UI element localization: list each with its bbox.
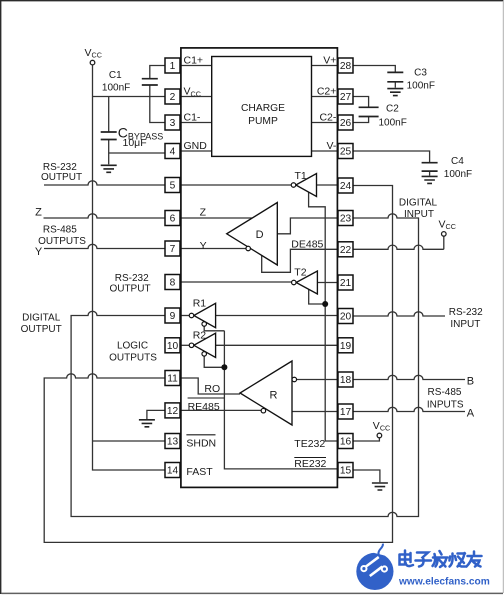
svg-text:RS-232: RS-232 [449, 307, 483, 318]
svg-text:OUTPUT: OUTPUT [41, 172, 82, 183]
svg-text:GND: GND [184, 140, 208, 152]
svg-text:OUTPUTS: OUTPUTS [38, 236, 86, 247]
svg-text:RS-485: RS-485 [428, 387, 462, 398]
svg-text:OUTPUTS: OUTPUTS [109, 352, 157, 363]
svg-text:C3: C3 [414, 68, 427, 79]
svg-text:27: 27 [340, 92, 352, 103]
svg-text:6: 6 [170, 214, 176, 225]
svg-text:21: 21 [340, 278, 352, 289]
svg-text:OUTPUT: OUTPUT [21, 324, 62, 335]
svg-text:26: 26 [340, 118, 352, 129]
svg-text:INPUTS: INPUTS [427, 400, 464, 411]
svg-text:DIGITAL: DIGITAL [22, 312, 61, 323]
svg-text:V+: V+ [323, 55, 336, 67]
svg-text:25: 25 [340, 147, 352, 158]
svg-text:Z: Z [200, 206, 207, 218]
svg-text:100nF: 100nF [407, 80, 435, 91]
svg-text:10: 10 [167, 341, 179, 352]
svg-text:LOGIC: LOGIC [117, 341, 148, 352]
svg-text:R2: R2 [193, 329, 207, 341]
svg-text:14: 14 [167, 466, 179, 477]
svg-text:PUMP: PUMP [248, 116, 278, 127]
svg-text:SHDN: SHDN [186, 437, 216, 449]
svg-text:CHARGE: CHARGE [241, 103, 285, 114]
svg-text:RE232: RE232 [294, 458, 326, 470]
svg-text:24: 24 [340, 181, 352, 192]
svg-text:18: 18 [340, 375, 352, 386]
svg-text:13: 13 [167, 437, 179, 448]
svg-text:Z: Z [35, 206, 42, 218]
svg-text:V-: V- [326, 140, 336, 152]
svg-text:2: 2 [170, 92, 176, 103]
svg-text:RE485: RE485 [188, 401, 220, 413]
svg-text:B: B [467, 376, 474, 388]
svg-text:100nF: 100nF [444, 169, 472, 180]
svg-text:100nF: 100nF [102, 83, 130, 94]
svg-text:A: A [467, 408, 475, 420]
svg-text:12: 12 [167, 406, 179, 417]
svg-text:R: R [270, 390, 278, 402]
svg-text:FAST: FAST [186, 466, 213, 478]
svg-text:7: 7 [170, 244, 176, 255]
svg-text:20: 20 [340, 312, 352, 323]
svg-text:1: 1 [170, 61, 176, 72]
svg-text:DIGITAL: DIGITAL [399, 198, 438, 209]
svg-text:11: 11 [167, 374, 178, 385]
svg-text:19: 19 [340, 341, 352, 352]
svg-text:22: 22 [340, 245, 352, 256]
svg-text:15: 15 [340, 466, 352, 477]
svg-text:Y: Y [35, 246, 43, 258]
svg-text:C2-: C2- [319, 112, 336, 124]
svg-text:D: D [256, 229, 264, 241]
svg-text:3: 3 [170, 118, 176, 129]
svg-text:9: 9 [170, 311, 176, 322]
svg-text:8: 8 [170, 278, 176, 289]
svg-text:16: 16 [340, 437, 352, 448]
svg-text:RS-485: RS-485 [43, 225, 77, 236]
svg-text:C4: C4 [451, 156, 464, 167]
svg-text:23: 23 [340, 214, 352, 225]
svg-text:T2: T2 [294, 266, 306, 278]
svg-text:100nF: 100nF [379, 118, 407, 129]
svg-text:www.elecfans.com: www.elecfans.com [398, 577, 490, 588]
svg-text:C1-: C1- [184, 112, 201, 124]
svg-text:5: 5 [170, 181, 176, 192]
svg-text:10μF: 10μF [123, 137, 147, 149]
svg-text:OUTPUT: OUTPUT [109, 284, 150, 295]
svg-text:Y: Y [200, 240, 207, 252]
svg-text:TE232: TE232 [294, 438, 325, 450]
svg-text:C1: C1 [109, 70, 122, 81]
svg-text:DE485: DE485 [291, 239, 323, 251]
svg-text:INPUT: INPUT [404, 209, 434, 220]
svg-text:4: 4 [170, 147, 176, 158]
svg-text:C2: C2 [386, 104, 399, 115]
svg-text:C2+: C2+ [317, 86, 337, 98]
svg-text:C1+: C1+ [184, 55, 204, 67]
svg-text:28: 28 [340, 61, 352, 72]
svg-text:17: 17 [340, 407, 352, 418]
svg-text:RO: RO [204, 383, 220, 395]
svg-text:RS-232: RS-232 [115, 273, 149, 284]
svg-text:T1: T1 [295, 170, 307, 182]
svg-text:INPUT: INPUT [450, 319, 480, 330]
svg-text:R1: R1 [193, 298, 207, 310]
